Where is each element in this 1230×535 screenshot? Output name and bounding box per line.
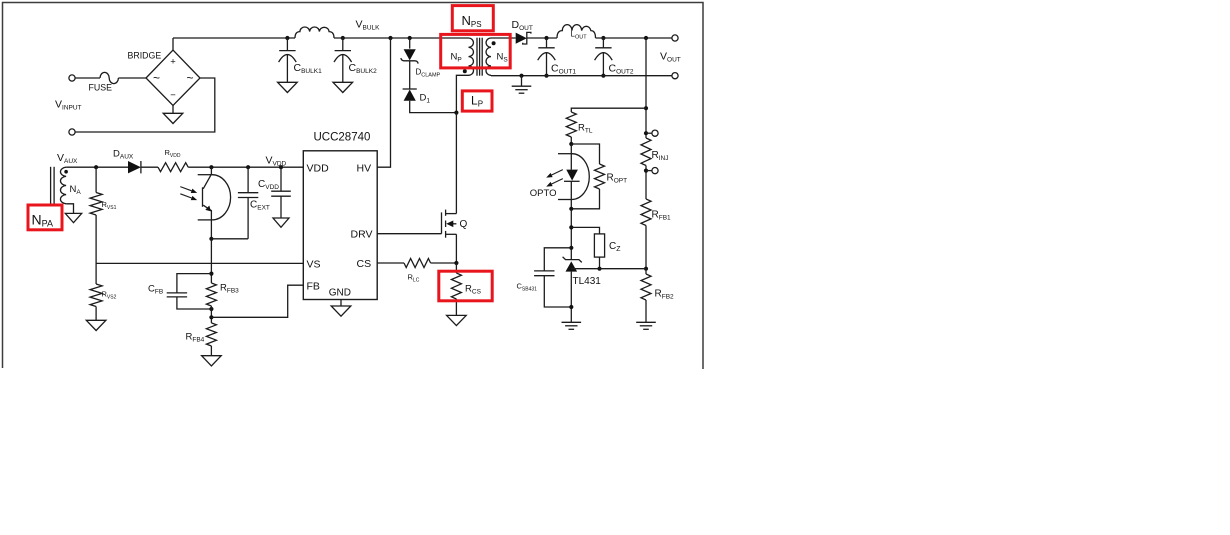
annotation box L_P bbox=[462, 91, 492, 111]
injection terminal top bbox=[652, 130, 658, 136]
ground secondary (IEC) bbox=[512, 86, 532, 93]
wire R_VS2 to ground bbox=[95, 307, 97, 321]
opto transistor light arrow 1 bbox=[180, 187, 197, 193]
wire R_FB4 to ground bbox=[210, 346, 212, 356]
wire C_FB top branch bbox=[177, 274, 212, 293]
node secondary ground bbox=[519, 74, 523, 78]
label R_VDD bbox=[165, 148, 181, 159]
label V_OUT bbox=[660, 51, 681, 64]
wire R_OPT top branch bbox=[571, 144, 599, 164]
wire D1 to drain node bbox=[410, 101, 457, 113]
resistor R_FB3 bbox=[206, 283, 216, 306]
wire emitter to FB node bbox=[210, 239, 212, 283]
diode D_CLAMP (TVS) bbox=[401, 49, 418, 63]
label C_VDD bbox=[258, 179, 279, 191]
label N_P bbox=[451, 52, 462, 64]
wire CS pin to R_LC bbox=[377, 262, 404, 264]
wire C_Z branch bbox=[571, 227, 599, 234]
ground C_BULK2 bbox=[333, 82, 353, 92]
capacitor C_OUT2 bbox=[595, 38, 613, 76]
node R_TL branch bbox=[644, 106, 648, 110]
input terminal bottom bbox=[69, 129, 75, 135]
resistor R_LC bbox=[404, 259, 431, 268]
opto transistor enclosure bbox=[198, 175, 231, 220]
transformer secondary winding N_S bbox=[486, 38, 491, 75]
ground GND pin bbox=[331, 306, 351, 316]
injection terminal bottom bbox=[652, 168, 658, 174]
phase dot primary bbox=[463, 69, 467, 73]
svg-text:−: − bbox=[170, 90, 176, 101]
aux winding N_A bbox=[60, 167, 66, 204]
label V_AUX bbox=[57, 152, 78, 165]
phase dot aux bbox=[64, 170, 68, 174]
wire source to CS node bbox=[455, 234, 457, 263]
label C_EXT bbox=[250, 200, 270, 212]
wire divider vertical upper bbox=[645, 38, 647, 138]
node C_BULK1 bbox=[285, 36, 289, 40]
label V_INPUT bbox=[55, 99, 82, 112]
wire DRV pin to gate bbox=[377, 233, 441, 235]
wire output top rail bbox=[596, 37, 672, 39]
label FUSE bbox=[89, 83, 113, 93]
wire stub to injection terminal bottom bbox=[646, 170, 652, 172]
diode D1 bbox=[403, 89, 417, 101]
wire R_VS1 to VS junction bbox=[95, 215, 97, 284]
node opto collector bbox=[209, 165, 213, 169]
node aux to R_VS1 bbox=[94, 165, 98, 169]
phase dot secondary bbox=[492, 41, 496, 45]
svg-text:TL431: TL431 bbox=[573, 276, 602, 287]
label C_SB431 bbox=[517, 282, 538, 293]
IC U1 UCC28740 bbox=[303, 132, 377, 300]
node CS junction bbox=[454, 261, 458, 265]
node opto top bbox=[569, 142, 573, 146]
transformer core bbox=[477, 38, 482, 76]
wire secondary bottom rail bbox=[491, 74, 672, 76]
label C_OUT1 bbox=[551, 63, 576, 76]
node R_FB3 top bbox=[209, 272, 213, 276]
node C_Z bottom bbox=[597, 267, 601, 271]
label N_S bbox=[497, 52, 509, 64]
label OPTO bbox=[530, 188, 557, 199]
node C_EXT top bbox=[246, 165, 250, 169]
wire R_TL to opto bbox=[570, 137, 572, 144]
wire TL431 anode to ground bbox=[570, 272, 572, 323]
wire V_BULK bus bbox=[173, 37, 295, 39]
node C_OUT1 top bbox=[544, 36, 548, 40]
wire bridge right vertex to input bottom bbox=[75, 78, 215, 132]
label TL431 bbox=[573, 276, 602, 287]
label D1 bbox=[420, 93, 431, 105]
ground bridge bbox=[163, 113, 183, 123]
annotation box R_CS bbox=[439, 271, 492, 301]
diode D_AUX bbox=[128, 161, 141, 173]
wire C_Z to ref wire bbox=[599, 257, 601, 269]
wire R_LC to CS node bbox=[431, 262, 457, 264]
capacitor C_VDD bbox=[271, 167, 291, 218]
wire secondary top to D_OUT bbox=[491, 37, 516, 39]
ground TL431 (IEC) bbox=[562, 322, 582, 329]
ground C_BULK1 bbox=[278, 82, 298, 92]
resistor R_INJ bbox=[641, 138, 651, 166]
wire bus to transformer bbox=[334, 37, 469, 39]
svg-text:~: ~ bbox=[153, 71, 160, 85]
wire bus to D_CLAMP bbox=[409, 38, 411, 49]
wire R_FB3 to R_FB4 bbox=[210, 306, 212, 323]
node C_Z branch bbox=[569, 225, 573, 229]
opto enclosure arc bbox=[558, 154, 589, 200]
label L_OUT bbox=[571, 30, 588, 41]
output terminal V_OUT minus bbox=[672, 73, 678, 79]
wire aux top rail bbox=[66, 166, 128, 168]
resistor R_FB4 bbox=[206, 323, 216, 346]
wire fuse to bridge bbox=[118, 77, 146, 79]
label R_FB1 bbox=[652, 210, 672, 222]
wire R_OPT bottom branch bbox=[571, 189, 599, 209]
label C_OUT2 bbox=[609, 63, 634, 76]
node R_INJ bottom bbox=[644, 169, 648, 173]
label C_FB bbox=[148, 284, 163, 296]
wire D_OUT to C_OUT1 bbox=[527, 37, 557, 39]
opto LED OPTO bbox=[564, 170, 580, 182]
wire C_FB bottom branch bbox=[177, 297, 212, 309]
label C_BULK2 bbox=[349, 62, 378, 75]
label R_VS2 bbox=[102, 290, 117, 301]
input terminal top bbox=[69, 75, 75, 81]
label R_OPT bbox=[607, 173, 628, 185]
annotation box transformer windings bbox=[441, 34, 511, 68]
node C_VDD top bbox=[279, 165, 283, 169]
wire input top to fuse bbox=[75, 77, 100, 79]
opto light arrow 2 bbox=[546, 179, 563, 187]
svg-text:BRIDGE: BRIDGE bbox=[128, 51, 162, 61]
capacitor C_Z (box) bbox=[594, 234, 604, 257]
label Q bbox=[460, 219, 468, 230]
node C_SB431 ground junction bbox=[569, 305, 573, 309]
wire TL431 ref bbox=[571, 268, 646, 270]
wire R_FB1 to ref node bbox=[645, 226, 647, 269]
label N_A bbox=[70, 184, 82, 196]
ground C_VDD bbox=[273, 218, 289, 227]
wire aux node to R_VS1 bbox=[95, 167, 97, 192]
wire R_CS to ground bbox=[455, 299, 457, 315]
node C_FB bottom junction bbox=[209, 307, 213, 311]
node C_SB431 branch bbox=[569, 246, 573, 250]
fuse FUSE bbox=[100, 72, 118, 83]
label R_FB3 bbox=[220, 283, 239, 295]
wire ref node to R_FB2 bbox=[645, 269, 647, 274]
ground R_FB4 bbox=[202, 356, 222, 366]
label V_VDD bbox=[266, 155, 287, 168]
wire VS pin bbox=[96, 262, 303, 264]
capacitor C_SB431 bbox=[534, 271, 554, 276]
capacitor C_BULK1 bbox=[279, 38, 297, 82]
wire C_SB431 top branch bbox=[544, 248, 571, 271]
resistor R_VS1 bbox=[90, 193, 102, 216]
wire opto cathode lead bbox=[570, 144, 572, 170]
label R_LC bbox=[408, 273, 420, 284]
resistor R_VS2 bbox=[90, 284, 102, 307]
label D_AUX bbox=[113, 149, 134, 161]
node HV branch bbox=[388, 36, 392, 40]
wire HV pin bbox=[377, 38, 390, 167]
wire opto anode lead bbox=[570, 181, 572, 209]
label R_VS1 bbox=[102, 200, 117, 211]
node opto bottom bbox=[569, 207, 573, 211]
label R_CS bbox=[465, 284, 482, 296]
diode D_OUT (schottky) bbox=[516, 32, 531, 44]
opto transistor light arrow 2 bbox=[180, 194, 197, 200]
wire drain bbox=[455, 113, 457, 214]
svg-text:+: + bbox=[170, 57, 176, 68]
node R_INJ top bbox=[644, 131, 648, 135]
node D_CLAMP branch bbox=[408, 36, 412, 40]
wire D_CLAMP to D1 bbox=[409, 61, 411, 89]
svg-text:GND: GND bbox=[329, 287, 351, 298]
svg-text:Q: Q bbox=[460, 219, 468, 230]
annotation box N_PS bbox=[452, 6, 493, 31]
annotation box N_PA bbox=[28, 205, 62, 230]
inductor L_OUT bbox=[557, 25, 596, 38]
svg-text:OPTO: OPTO bbox=[530, 188, 557, 199]
ground R_VS2 bbox=[86, 320, 106, 330]
wire FB pin bbox=[211, 285, 303, 317]
wire primary bottom lead bbox=[456, 75, 468, 112]
node ref divider junction bbox=[644, 267, 648, 271]
svg-text:FUSE: FUSE bbox=[89, 83, 113, 93]
node opto emitter bbox=[209, 237, 213, 241]
inductor input filter bbox=[295, 27, 334, 38]
wire R_INJ to R_FB1 bbox=[645, 166, 647, 200]
resistor R_OPT bbox=[595, 164, 605, 189]
wire R_FB2 to ground bbox=[645, 300, 647, 322]
svg-text:FB: FB bbox=[307, 280, 320, 292]
label V_BULK bbox=[356, 19, 381, 32]
transformer primary winding N_P bbox=[469, 38, 474, 75]
opto light arrow 1 bbox=[546, 170, 563, 178]
wire emitter to C_EXT bbox=[211, 238, 248, 240]
capacitor C_EXT bbox=[238, 167, 258, 239]
node C_OUT2 bottom bbox=[601, 74, 605, 78]
capacitor C_FB bbox=[167, 293, 187, 297]
aux winding core bbox=[51, 167, 55, 205]
schematic frame border (open at bottom) bbox=[3, 3, 704, 370]
wire aux bottom to ground bbox=[66, 204, 73, 214]
label C_Z bbox=[609, 241, 621, 253]
transistor Q (MOSFET) bbox=[442, 210, 457, 238]
wire C_SB431 bottom branch bbox=[544, 276, 571, 307]
label D_CLAMP bbox=[416, 68, 441, 79]
ground R_FB2 (IEC) bbox=[636, 322, 656, 329]
wire to secondary ground bbox=[521, 76, 523, 87]
svg-text:CS: CS bbox=[357, 258, 372, 270]
svg-text:HV: HV bbox=[357, 162, 372, 174]
svg-text:UCC28740: UCC28740 bbox=[314, 132, 371, 144]
label R_FB2 bbox=[655, 289, 675, 301]
node C_OUT2 top bbox=[601, 36, 605, 40]
wire opto to C_Z node bbox=[570, 209, 572, 260]
shunt regulator TL431 bbox=[563, 257, 582, 272]
svg-text:DRV: DRV bbox=[351, 229, 373, 241]
capacitor C_BULK2 bbox=[334, 38, 352, 82]
wire R_VDD to VDD pin bbox=[188, 166, 303, 168]
label R_INJ bbox=[652, 150, 669, 162]
label BRIDGE bbox=[128, 51, 162, 61]
node FB branch bbox=[209, 315, 213, 319]
capacitor C_OUT1 bbox=[538, 38, 556, 76]
resistor R_FB1 bbox=[641, 199, 651, 226]
resistor R_TL bbox=[566, 112, 576, 137]
node primary-D1-drain junction bbox=[454, 111, 458, 115]
svg-text:VS: VS bbox=[307, 258, 321, 270]
wire GND pin bbox=[340, 300, 342, 307]
svg-text:~: ~ bbox=[186, 71, 193, 85]
node C_OUT1 bottom bbox=[544, 74, 548, 78]
wire bridge bottom to ground bbox=[172, 106, 174, 114]
wire D_AUX to R_VDD bbox=[141, 166, 158, 168]
opto phototransistor bbox=[203, 167, 212, 239]
svg-text:VDD: VDD bbox=[307, 162, 330, 174]
label C_BULK1 bbox=[294, 62, 323, 75]
output terminal V_OUT plus bbox=[672, 35, 678, 41]
resistor R_CS bbox=[451, 263, 461, 299]
ground R_CS bbox=[447, 315, 467, 325]
wire R_TL branch bbox=[571, 108, 646, 112]
label R_TL bbox=[578, 123, 593, 135]
ground aux winding bbox=[65, 213, 81, 222]
wire bridge top to bus bbox=[172, 38, 174, 50]
wire stub to injection terminal top bbox=[646, 132, 652, 134]
resistor R_VDD bbox=[158, 163, 188, 172]
node output rail to divider bbox=[644, 36, 648, 40]
label R_FB4 bbox=[186, 332, 205, 344]
node C_BULK2 bbox=[341, 36, 345, 40]
label D_OUT bbox=[512, 19, 533, 32]
bridge rectifier BRIDGE bbox=[146, 50, 200, 106]
resistor R_FB2 bbox=[641, 274, 651, 300]
